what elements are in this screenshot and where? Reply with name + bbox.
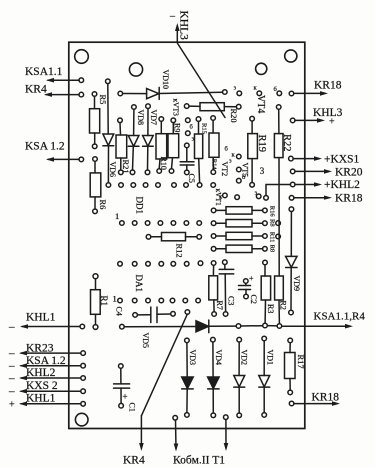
svg-text:R21: R21	[121, 160, 131, 174]
svg-text:3: 3	[260, 166, 265, 176]
svg-text:KXS 2: KXS 2	[26, 380, 58, 392]
svg-text:R11: R11	[269, 232, 276, 243]
resistor R11 (stacked row 3)	[211, 234, 216, 239]
wire KSA1.1,R4 bottom right	[282, 325, 350, 327]
resistor R14	[211, 116, 216, 121]
IC DA1 pads row 2	[118, 298, 201, 303]
node KSA1.2 pad	[79, 157, 84, 162]
svg-text:R8: R8	[269, 219, 276, 227]
node KR18 top pad	[289, 91, 294, 96]
diode VD4	[211, 337, 216, 342]
svg-text:DA1: DA1	[134, 275, 144, 293]
svg-text:–: –	[169, 11, 176, 22]
svg-text:R16: R16	[269, 206, 276, 218]
node KHL3 right pad	[290, 118, 295, 123]
svg-text:VD8: VD8	[136, 110, 145, 126]
svg-text:KR18: KR18	[312, 392, 340, 404]
svg-text:VD4: VD4	[214, 350, 223, 366]
resistor R8b (stacked row 4)	[211, 247, 216, 252]
resistor R22	[276, 105, 281, 110]
diode VD8	[132, 105, 137, 110]
wire +KHL2	[295, 184, 319, 186]
svg-text:KR18: KR18	[314, 80, 342, 92]
svg-text:VD6: VD6	[108, 162, 117, 178]
svg-text:VD10: VD10	[161, 70, 170, 90]
svg-text:+KXS1: +KXS1	[324, 154, 359, 166]
wire Kobm arrow 1	[175, 420, 178, 449]
svg-text:VD9: VD9	[292, 276, 301, 292]
svg-text:–: –	[8, 321, 15, 333]
capacitor C4	[133, 313, 138, 318]
svg-text:R8: R8	[269, 245, 276, 253]
svg-text:R7: R7	[215, 301, 224, 310]
resistor R3	[263, 260, 268, 265]
svg-text:+: +	[123, 392, 128, 402]
capacitor C1	[119, 364, 124, 369]
svg-text:VD5: VD5	[141, 333, 150, 349]
wire corner to +KHL2	[266, 185, 290, 196]
wire KR18 bottom right	[294, 403, 337, 405]
node KSA1.1 pad	[79, 78, 84, 83]
svg-text:з: з	[192, 136, 195, 143]
resistor R17	[288, 338, 293, 343]
wire +KXS1	[293, 158, 319, 160]
wire KHL1 to left edge	[22, 326, 80, 328]
resistor R6	[93, 157, 98, 162]
svg-text:R17: R17	[296, 355, 306, 369]
wire diagonal from KHL3 pin	[177, 43, 225, 118]
svg-text:C5: C5	[187, 174, 196, 183]
svg-text:C3: C3	[226, 296, 235, 305]
wire KR18 mid right	[294, 197, 329, 199]
resistor R1	[93, 274, 98, 279]
capacitor C2	[244, 279, 249, 284]
diode VD7	[146, 104, 151, 109]
resistor R21	[118, 118, 123, 123]
wire KSA1.2 to left edge	[48, 158, 79, 160]
svg-text:R20: R20	[229, 109, 239, 123]
svg-text:к: к	[232, 152, 236, 159]
resistor R12	[146, 235, 151, 240]
IC DA1 pads row 1	[118, 261, 203, 266]
svg-text:–: –	[8, 386, 15, 398]
resistor R8 (stacked row 2)	[211, 221, 216, 226]
svg-text:C4: C4	[115, 307, 124, 316]
svg-text:з: з	[229, 158, 232, 165]
diode VD2	[237, 337, 242, 342]
svg-text:DD1: DD1	[135, 197, 145, 215]
node KR23 pad	[81, 351, 86, 356]
svg-text:KSA1.1: KSA1.1	[25, 66, 63, 78]
svg-text:KHL1: KHL1	[26, 393, 56, 405]
diode VD9	[289, 207, 294, 212]
svg-text:VD1: VD1	[265, 350, 274, 366]
svg-text:R12: R12	[175, 244, 185, 258]
svg-text:R22: R22	[281, 134, 292, 152]
capacitor C3	[223, 260, 228, 265]
node pad above Kobm arrow 2	[224, 415, 229, 420]
node KHL1 lower pad	[81, 402, 86, 407]
node diagonal start pad	[185, 310, 190, 315]
svg-text:к: к	[254, 85, 258, 92]
resistor R10	[159, 117, 164, 122]
svg-text:KHL1: KHL1	[26, 312, 56, 324]
node KSA1.2 lower pad	[81, 363, 86, 368]
resistor R9	[171, 118, 176, 123]
transistor VT2/VT5/VT1 pads	[223, 193, 228, 198]
node KHL1 pad	[80, 324, 85, 329]
transistor VT3 pads	[186, 118, 191, 123]
wire KHL3 top arrow	[176, 26, 178, 42]
svg-text:C2: C2	[249, 295, 258, 304]
svg-text:KSA 1.2: KSA 1.2	[26, 355, 66, 367]
svg-text:R19: R19	[256, 135, 267, 153]
wire KHL1 lower to left edge	[21, 403, 81, 405]
svg-text:б: б	[190, 124, 194, 131]
svg-text:1: 1	[113, 294, 117, 304]
node wire corner pad	[264, 196, 269, 201]
svg-text:R2: R2	[279, 301, 288, 310]
diode VD6	[106, 79, 111, 84]
svg-text:R10: R10	[159, 157, 168, 170]
wire KR20	[295, 170, 329, 172]
svg-text:+: +	[329, 117, 335, 128]
svg-text:R14: R14	[211, 159, 218, 171]
diode VD3	[185, 338, 190, 343]
mounting hole top-right	[285, 50, 297, 62]
svg-text:KR23: KR23	[26, 342, 54, 354]
wire KXS2 to left edge	[21, 390, 81, 392]
IC DD1 pads row 2	[120, 221, 202, 226]
svg-text:C1: C1	[128, 403, 137, 412]
svg-text:+: +	[9, 400, 15, 411]
svg-text:R9: R9	[173, 123, 182, 132]
transistor VT4 pads	[237, 91, 242, 96]
resistor R20	[184, 104, 189, 109]
mounting hole bottom-left	[75, 413, 88, 426]
svg-text:+KHL2: +KHL2	[324, 179, 360, 191]
resistor R15	[196, 117, 201, 122]
svg-text:з: з	[255, 190, 258, 197]
svg-text:KHL3: KHL3	[178, 11, 190, 41]
resistor R19	[250, 116, 255, 121]
svg-text:R3: R3	[266, 304, 275, 313]
resistor R16 (stacked row 1)	[211, 208, 216, 213]
diode VD1	[262, 336, 267, 341]
node KR18 bottom pad	[289, 401, 294, 406]
board outline	[69, 42, 305, 428]
resistor R2	[275, 276, 284, 300]
diode VD10	[118, 91, 123, 96]
node +KHL2 pad	[290, 182, 295, 187]
node +KXS1 pad	[289, 156, 294, 161]
resistor R5	[92, 92, 97, 97]
wire KHL3 right	[295, 119, 322, 121]
resistor R7	[211, 261, 216, 266]
svg-text:–: –	[8, 372, 15, 384]
node KHL2 pad	[81, 376, 86, 381]
diode VD5	[120, 324, 125, 329]
svg-text:б: б	[225, 146, 229, 153]
wire KR4 to left edge	[46, 94, 79, 96]
svg-text:–: –	[8, 348, 15, 360]
svg-text:VD2: VD2	[239, 350, 248, 366]
wire KR18 top right	[295, 92, 325, 94]
svg-text:KR4: KR4	[25, 84, 47, 96]
svg-text:KSA1.1,R4: KSA1.1,R4	[314, 311, 366, 323]
wire KR4 bottom arrow	[140, 416, 142, 448]
wire KHL2 to left edge	[21, 377, 81, 379]
mounting hole top-right-inner	[256, 63, 267, 74]
svg-text:–: –	[8, 360, 15, 372]
mounting hole top-left	[75, 50, 89, 64]
wire KR23 to left edge	[21, 352, 81, 354]
IC DD1 pads row 1	[106, 183, 215, 188]
node KR20 pad	[290, 169, 295, 174]
wire diagonal to KR4 arrow	[141, 314, 187, 416]
node KR18 mid pad	[289, 196, 294, 201]
mounting hole top-mid	[129, 63, 142, 76]
svg-text:кVT3: кVT3	[172, 99, 181, 117]
svg-text:VT2: VT2	[220, 162, 229, 177]
svg-text:R15: R15	[201, 123, 208, 134]
svg-text:R6: R6	[98, 200, 108, 210]
svg-text:KHL2: KHL2	[26, 367, 56, 379]
wire KSA1.1 to left edge	[48, 79, 79, 81]
svg-text:VT4: VT4	[255, 95, 266, 113]
svg-text:R5: R5	[98, 95, 108, 105]
svg-text:1: 1	[115, 211, 119, 221]
svg-text:R1: R1	[99, 296, 109, 307]
svg-text:+: +	[249, 274, 254, 283]
svg-text:Кобм.II Т1: Кобм.II Т1	[173, 455, 225, 467]
svg-text:KR20: KR20	[335, 167, 363, 179]
node KR4 pad	[79, 92, 84, 97]
wire KSA1.2 lower to left edge	[21, 365, 81, 367]
node pad above Kobm arrow 1	[173, 416, 178, 421]
svg-text:з: з	[234, 85, 237, 92]
wire VD5 pad to R3/R2 pads	[241, 325, 263, 327]
svg-text:KHL3: KHL3	[313, 107, 343, 119]
svg-text:KSA 1.2: KSA 1.2	[25, 141, 65, 153]
wire R22 to R2	[278, 158, 280, 276]
svg-text:KR4: KR4	[123, 455, 145, 467]
capacitor C5	[185, 143, 190, 148]
wire Kobm arrow 2	[225, 419, 227, 448]
node KXS2 pad	[81, 389, 86, 394]
svg-text:VD7: VD7	[149, 110, 158, 126]
svg-text:VD3: VD3	[188, 350, 197, 366]
svg-text:KR18: KR18	[335, 192, 363, 204]
